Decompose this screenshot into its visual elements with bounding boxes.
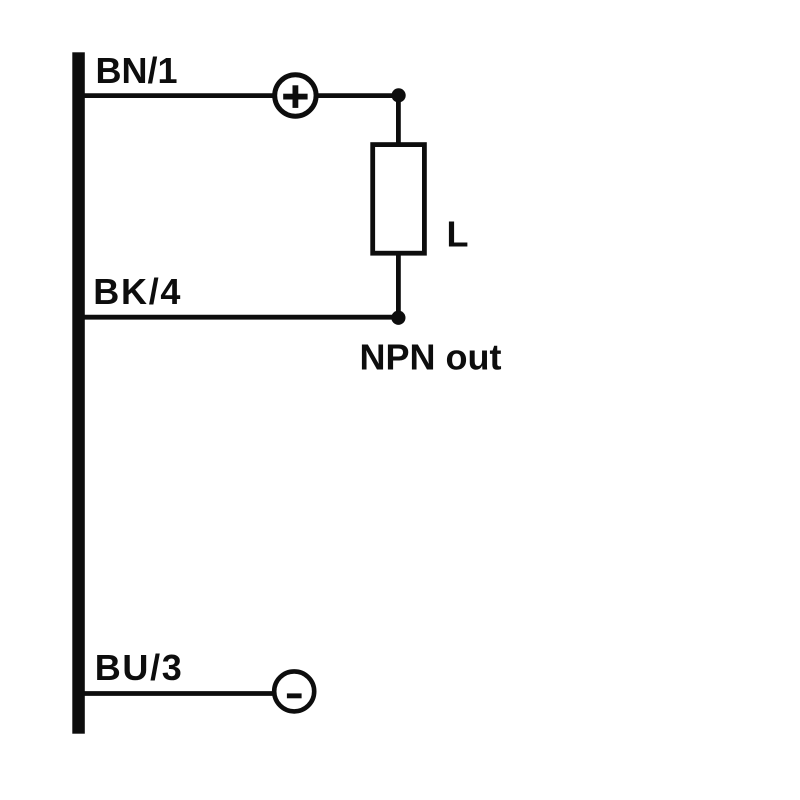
- svg-text:L: L: [447, 214, 469, 255]
- wire BK/4 (rail to node B): [84, 315, 399, 320]
- wire BN/1 (rail to node A): [84, 93, 399, 98]
- svg-text:BU/3: BU/3: [95, 647, 184, 688]
- node B (junction dot on BK/4 wire): [391, 311, 405, 325]
- wire BU/3 (rail to minus terminal): [84, 691, 276, 696]
- minus terminal U- (circle with minus): [274, 671, 314, 711]
- load resistor L: [373, 145, 425, 254]
- wire from node A down to load: [396, 95, 401, 144]
- plus terminal U+ (circle with plus): [275, 75, 316, 116]
- svg-text:BN/1: BN/1: [96, 50, 178, 91]
- svg-text:NPN out: NPN out: [360, 337, 502, 378]
- sensor supply rail (vertical bar): [72, 52, 85, 733]
- wire from load down to node B: [396, 253, 401, 318]
- node A (junction dot on BN/1 wire): [392, 88, 406, 102]
- svg-text:BK/4: BK/4: [93, 271, 182, 312]
